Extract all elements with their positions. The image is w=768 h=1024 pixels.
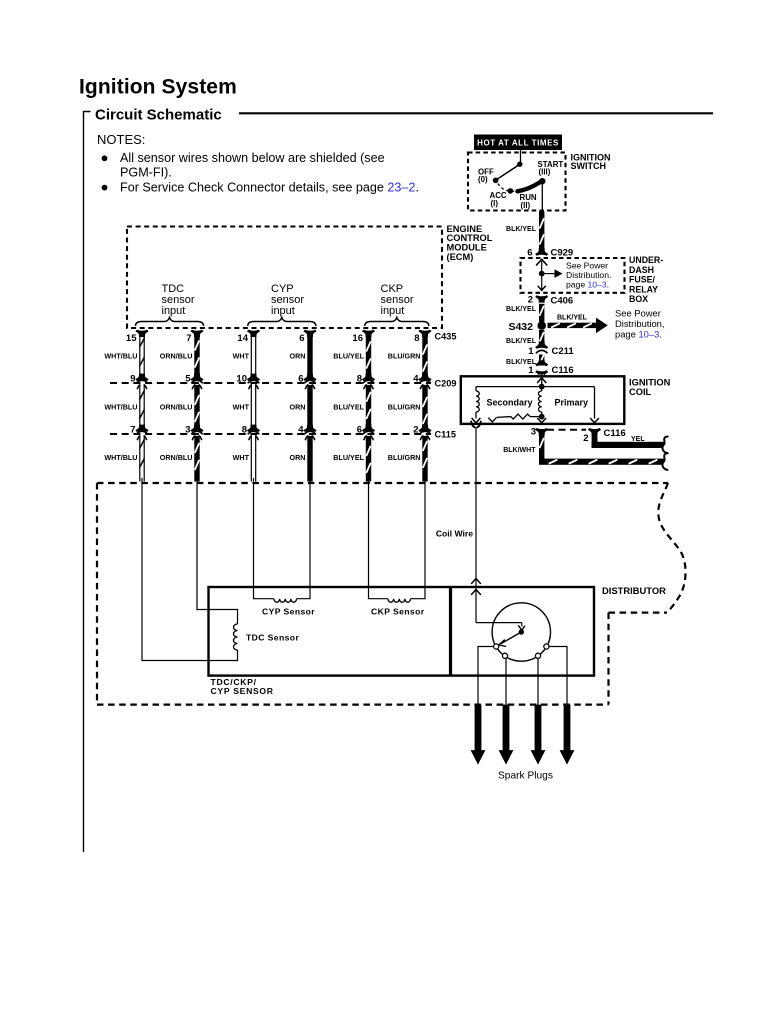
svg-text:C435: C435 <box>435 331 457 341</box>
wire BLK/YEL C211 to C116 <box>539 355 544 366</box>
coil pin2 output arrow <box>590 418 599 423</box>
brace TDC <box>136 318 204 327</box>
rotor <box>499 629 524 646</box>
svg-text:input: input <box>271 305 295 317</box>
label TDC sensor input <box>162 283 195 317</box>
svg-text:BLU/GRN: BLU/GRN <box>388 351 421 360</box>
svg-text:All sensor wires shown below a: All sensor wires shown below are shielde… <box>120 151 385 165</box>
distributor cap <box>492 603 550 661</box>
connector C115 pin 6 <box>357 424 375 439</box>
label CYP sensor input <box>271 283 304 317</box>
node S432 <box>508 321 546 333</box>
svg-text:DISTRIBUTOR: DISTRIBUTOR <box>602 585 666 596</box>
wire BLU/YEL seg3 <box>366 436 371 482</box>
cap terminal 3 <box>535 653 540 658</box>
cap terminal 1 <box>494 644 499 649</box>
coil wire <box>475 435 477 584</box>
svg-text:1: 1 <box>528 365 534 376</box>
connector C209 pin 8 <box>357 373 375 388</box>
connector C435 pin 8 <box>414 330 431 344</box>
cap terminal 4 <box>544 644 549 649</box>
wire WHT seg1 <box>251 334 255 375</box>
svg-text:9: 9 <box>130 373 135 384</box>
label TDC Sensor <box>246 632 299 642</box>
label UNDER-DASH FUSE/RELAY BOX <box>629 255 663 304</box>
svg-text:input: input <box>162 305 186 317</box>
under-dash fuse/relay box <box>521 258 625 293</box>
label BLU/GRN <box>388 453 421 462</box>
svg-text:2: 2 <box>583 433 588 444</box>
svg-text:4: 4 <box>413 373 419 384</box>
wire CKP sensor lead A <box>369 478 389 599</box>
svg-text:Circuit Schematic: Circuit Schematic <box>95 107 222 124</box>
svg-text:2: 2 <box>528 294 533 305</box>
svg-text:ORN: ORN <box>290 351 306 360</box>
label WHT/BLU <box>104 402 137 411</box>
note bullet 1 <box>102 155 108 161</box>
svg-text:8: 8 <box>357 373 362 384</box>
svg-text:WHT/BLU: WHT/BLU <box>104 351 137 360</box>
connector C115 pin 3 <box>185 424 203 439</box>
label IGNITION SWITCH <box>571 152 611 171</box>
svg-text:Coil Wire: Coil Wire <box>436 528 473 538</box>
ignition switch box <box>468 153 566 211</box>
C116 plane dashes <box>547 429 586 431</box>
svg-text:C929: C929 <box>551 248 574 259</box>
wire BLK/YEL C406 to S432 <box>539 304 544 322</box>
wire ORN/BLU seg3 <box>194 436 199 482</box>
label C116 <box>604 428 626 439</box>
harness boundary wavy edge <box>658 483 685 613</box>
label YEL <box>631 436 645 443</box>
svg-text:WHT: WHT <box>233 402 250 411</box>
svg-text:BLK/YEL: BLK/YEL <box>506 338 537 345</box>
wire BLU/GRN seg2 <box>422 385 427 426</box>
label BLU/YEL <box>333 453 364 462</box>
secondary winding <box>476 391 479 419</box>
coil input node <box>539 384 545 390</box>
label BLK/WHT <box>503 447 536 454</box>
coil wire arrows <box>471 579 481 623</box>
svg-text:Distribution.: Distribution. <box>566 270 611 280</box>
svg-text:For Service Check Connector de: For Service Check Connector details, see… <box>120 180 419 194</box>
wire BLU/GRN seg3 <box>422 436 427 482</box>
svg-text:HOT AT ALL TIMES: HOT AT ALL TIMES <box>477 139 559 148</box>
sensor box <box>209 587 595 676</box>
svg-text:C116: C116 <box>604 428 626 439</box>
label CKP Sensor <box>371 607 425 617</box>
label BLU/YEL <box>333 402 364 411</box>
label WHT <box>233 402 250 411</box>
wire CYP sensor lead B <box>297 478 311 599</box>
svg-text:16: 16 <box>352 333 363 344</box>
spark wire 3 <box>537 659 539 705</box>
svg-text:3: 3 <box>185 424 190 435</box>
wire WHT/BLU seg1 <box>140 334 144 375</box>
wire WHT seg3 <box>251 436 255 482</box>
svg-text:ORN/BLU: ORN/BLU <box>160 453 193 462</box>
wire ORN seg2 <box>307 385 312 426</box>
label BLK/YEL <box>506 359 537 366</box>
label WHT/BLU <box>104 453 137 462</box>
primary junction node <box>539 414 545 420</box>
wire ORN seg1 <box>307 334 312 375</box>
wire TDC sensor lead B <box>142 478 238 661</box>
svg-text:WHT/BLU: WHT/BLU <box>104 402 137 411</box>
wire BLK/YEL S432 to C211 <box>539 330 544 347</box>
harness boundary notch vertical <box>607 613 609 705</box>
connector C115 pin 2 <box>413 424 431 439</box>
spark plug arrow 2 <box>499 705 512 764</box>
svg-text:C116: C116 <box>552 365 574 376</box>
label WHT <box>233 453 250 462</box>
label BLK/YEL <box>506 306 537 313</box>
note line 2 <box>120 166 172 180</box>
label BLK/YEL <box>506 338 537 345</box>
connector C115 pin 8 <box>242 424 260 439</box>
svg-text:C209: C209 <box>435 378 457 388</box>
note see power distribution fusebox <box>566 260 611 289</box>
label BLK/YEL <box>506 226 537 233</box>
svg-text:10: 10 <box>236 373 247 384</box>
svg-text:7: 7 <box>130 424 135 435</box>
svg-text:WHT: WHT <box>233 453 250 462</box>
svg-text:15: 15 <box>126 333 137 344</box>
connector C116 pin 1 <box>528 361 573 377</box>
svg-text:6: 6 <box>299 333 304 344</box>
connector C435 pin 7 <box>186 330 203 344</box>
svg-text:(0): (0) <box>478 175 488 184</box>
svg-text:Spark Plugs: Spark Plugs <box>498 770 553 781</box>
svg-text:C115: C115 <box>435 429 456 439</box>
wire BLK/YEL switch to C929 <box>539 212 544 251</box>
svg-text:BLU/GRN: BLU/GRN <box>388 402 421 411</box>
label WHT <box>233 351 250 360</box>
svg-text:4: 4 <box>298 424 304 435</box>
CKP sensor winding <box>388 599 411 602</box>
svg-text:C211: C211 <box>552 346 575 357</box>
notes heading <box>97 132 145 147</box>
wire ORN seg3 <box>307 436 312 482</box>
wire ORN/BLU seg2 <box>194 385 199 426</box>
svg-text:BLU/YEL: BLU/YEL <box>333 453 364 462</box>
connector C209 pin 5 <box>185 373 203 388</box>
svg-text:6: 6 <box>527 248 532 259</box>
wire BLK/YEL to power distribution arrow <box>548 319 607 333</box>
wire CKP sensor lead B <box>411 478 426 599</box>
svg-text:CYP SENSOR: CYP SENSOR <box>211 686 274 696</box>
svg-text:UNDER-: UNDER- <box>629 255 663 265</box>
label START (III) <box>538 160 564 177</box>
svg-text:Distribution,: Distribution, <box>615 318 665 329</box>
heading rule <box>239 112 713 114</box>
label DISTRIBUTOR <box>602 585 666 596</box>
svg-text:S432: S432 <box>508 321 533 333</box>
svg-text:CYP Sensor: CYP Sensor <box>262 607 315 617</box>
primary winding <box>538 391 541 419</box>
svg-text:BLU/GRN: BLU/GRN <box>388 453 421 462</box>
label CKP sensor input <box>381 283 414 317</box>
label Secondary <box>487 398 533 408</box>
label ORN <box>290 402 306 411</box>
svg-text:2: 2 <box>413 424 418 435</box>
label BLK/YEL <box>557 314 588 321</box>
svg-text:ORN/BLU: ORN/BLU <box>160 351 193 360</box>
wire hot feed <box>520 150 522 164</box>
svg-text:BLK/WHT: BLK/WHT <box>503 447 536 454</box>
connector C116 pin 2 <box>583 428 600 444</box>
spark plug arrow 1 <box>471 705 484 764</box>
label HOT AT ALL TIMES <box>474 135 562 151</box>
label Coil Wire <box>436 528 473 538</box>
connector C435 pin 15 <box>126 330 148 344</box>
brace CYP <box>248 318 316 327</box>
svg-text:BOX: BOX <box>629 294 648 304</box>
label Spark Plugs <box>498 770 553 781</box>
connector C435 pin 6 <box>299 330 316 344</box>
svg-text:CKP Sensor: CKP Sensor <box>371 607 425 617</box>
connector C115 pin 7 <box>130 424 148 439</box>
svg-text:C406: C406 <box>551 295 574 306</box>
svg-text:page 10–3.: page 10–3. <box>615 329 662 340</box>
svg-text:ORN/BLU: ORN/BLU <box>160 402 193 411</box>
svg-text:page 10–3.: page 10–3. <box>566 279 609 289</box>
label ORN <box>290 453 306 462</box>
harness boundary bottom <box>97 703 609 705</box>
TDC sensor winding <box>233 624 237 650</box>
cap terminal 2 <box>502 653 507 658</box>
spark plug arrow 4 <box>560 705 573 764</box>
connector C929 <box>527 248 573 259</box>
ignition coil box <box>461 376 625 424</box>
wire BLK/WHT <box>539 429 668 470</box>
connector C209 pin 10 <box>236 373 259 388</box>
label BLU/GRN <box>388 402 421 411</box>
svg-text:(II): (II) <box>521 201 531 210</box>
coil primary output arrow <box>537 418 546 423</box>
svg-text:7: 7 <box>186 333 191 344</box>
svg-text:(III): (III) <box>539 168 551 177</box>
resistor R <box>488 414 541 422</box>
svg-text:1: 1 <box>528 346 534 357</box>
svg-text:BLK/YEL: BLK/YEL <box>506 226 537 233</box>
svg-text:See Power: See Power <box>566 260 608 270</box>
connector row C209 line <box>110 382 431 384</box>
ignition switch SW1 <box>493 162 546 212</box>
label RUN (II) <box>520 193 537 210</box>
wire CYP sensor lead A <box>254 478 275 599</box>
wire WHT seg2 <box>251 385 255 426</box>
svg-text:ORN: ORN <box>290 453 306 462</box>
connector C209 pin 4 <box>413 373 431 388</box>
svg-text:8: 8 <box>242 424 247 435</box>
wire into ignition coil <box>537 374 546 384</box>
svg-text:14: 14 <box>237 333 248 344</box>
svg-text:NOTES:: NOTES: <box>97 132 145 147</box>
svg-text:YEL: YEL <box>631 436 645 443</box>
wire BLU/YEL seg2 <box>366 385 371 426</box>
connector C115 pin 4 <box>298 424 316 439</box>
spark wire 2 <box>505 659 507 705</box>
note line 3 <box>120 180 419 194</box>
label TDC/CKP/CYP SENSOR <box>211 677 274 696</box>
note see power distribution right <box>615 308 665 340</box>
fuse box internal link <box>536 259 561 290</box>
svg-text:(I): (I) <box>491 199 499 208</box>
coil secondary output arrow <box>472 418 481 423</box>
svg-text:COIL: COIL <box>629 387 652 397</box>
svg-text:6: 6 <box>298 373 303 384</box>
label IGNITION COIL <box>629 377 671 396</box>
connector C116 pin 3 <box>531 426 548 437</box>
spark wire 4 <box>549 647 567 705</box>
wire TDC sensor lead A <box>197 478 238 624</box>
svg-text:(ECM): (ECM) <box>447 252 474 262</box>
svg-text:DASH: DASH <box>629 265 654 275</box>
svg-text:8: 8 <box>414 333 419 344</box>
heading Circuit Schematic <box>95 107 222 124</box>
harness boundary left <box>96 483 98 705</box>
label BLU/GRN <box>388 351 421 360</box>
wire WHT/BLU seg3 <box>140 436 144 482</box>
label ORN/BLU <box>160 453 193 462</box>
svg-text:BLK/YEL: BLK/YEL <box>506 306 537 313</box>
label BLU/YEL <box>333 351 364 360</box>
label ENGINE CONTROL MODULE (ECM) <box>447 224 493 262</box>
label ORN <box>290 351 306 360</box>
svg-text:SWITCH: SWITCH <box>571 161 607 171</box>
label C115 <box>435 429 456 439</box>
brace CKP <box>365 318 429 327</box>
spark plug arrow 3 <box>531 705 544 764</box>
connector C406 <box>528 294 574 306</box>
harness boundary top <box>97 482 668 484</box>
label ORN/BLU <box>160 402 193 411</box>
wire BLU/YEL seg1 <box>366 334 371 375</box>
label OFF (0) <box>478 167 494 184</box>
section bracket <box>84 112 91 853</box>
svg-text:FUSE/: FUSE/ <box>629 275 655 285</box>
svg-text:WHT/BLU: WHT/BLU <box>104 453 137 462</box>
svg-text:BLU/YEL: BLU/YEL <box>333 351 364 360</box>
coil internal bus <box>476 387 595 419</box>
connector C435 pin 16 <box>352 330 374 344</box>
label C209 <box>435 378 457 388</box>
connector coil wire <box>471 422 481 436</box>
label CYP Sensor <box>262 607 315 617</box>
svg-text:5: 5 <box>185 373 191 384</box>
coil wire into cap <box>476 623 525 631</box>
connector C211 <box>528 342 574 357</box>
svg-text:PGM-FI).: PGM-FI). <box>120 166 172 180</box>
label ACC (I) <box>490 191 507 208</box>
label WHT/BLU <box>104 351 137 360</box>
connector C209 pin 6 <box>298 373 316 388</box>
svg-text:Ignition System: Ignition System <box>79 76 237 99</box>
wire YEL <box>592 432 668 454</box>
svg-text:See Power: See Power <box>615 308 661 319</box>
note bullet 2 <box>102 185 108 191</box>
label C435 <box>435 331 457 341</box>
spark wire 1 <box>478 647 494 705</box>
connector C435 pin 14 <box>237 330 259 344</box>
connector row C115 line <box>110 433 431 435</box>
wire ORN/BLU seg1 <box>194 334 199 375</box>
svg-text:ORN: ORN <box>290 402 306 411</box>
svg-text:TDC Sensor: TDC Sensor <box>246 632 299 642</box>
svg-text:RELAY: RELAY <box>629 284 658 294</box>
CYP sensor winding <box>274 599 297 602</box>
svg-text:BLK/YEL: BLK/YEL <box>557 314 588 321</box>
svg-text:Secondary: Secondary <box>487 398 533 408</box>
svg-text:input: input <box>381 305 405 317</box>
connector C209 pin 9 <box>130 373 148 388</box>
sensor box divider <box>449 587 452 676</box>
svg-text:WHT: WHT <box>233 351 250 360</box>
page title <box>79 76 237 99</box>
svg-text:Primary: Primary <box>555 398 589 408</box>
svg-text:BLU/YEL: BLU/YEL <box>333 402 364 411</box>
svg-text:6: 6 <box>357 424 362 435</box>
label Primary <box>555 398 589 408</box>
label ORN/BLU <box>160 351 193 360</box>
harness boundary notch horizontal <box>609 611 668 613</box>
svg-text:3: 3 <box>531 426 536 437</box>
engine control module box <box>127 227 442 329</box>
wire BLU/GRN seg1 <box>422 334 427 375</box>
note line 1 <box>120 151 385 165</box>
wire WHT/BLU seg2 <box>140 385 144 426</box>
